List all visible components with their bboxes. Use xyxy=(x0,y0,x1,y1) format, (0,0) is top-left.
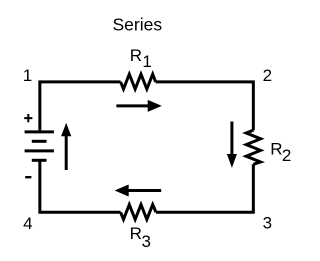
wire: R1 to top-right corner down to R2 (node 2) xyxy=(156,82,254,130)
wire: R2 to bottom-right corner to R3 (node 3) xyxy=(156,164,253,212)
current arrow left (bottom side) xyxy=(115,185,162,197)
svg-text:1: 1 xyxy=(142,52,151,71)
svg-text:1: 1 xyxy=(23,66,32,85)
current arrow right (top side) xyxy=(116,100,161,112)
battery B1: bottom short plate (-) xyxy=(32,159,47,162)
svg-text:2: 2 xyxy=(282,146,291,165)
svg-text:R: R xyxy=(270,140,282,159)
resistor R1 zigzag xyxy=(121,74,156,89)
battery B1: top long plate (+) xyxy=(25,130,54,133)
current arrow up (left side) xyxy=(61,123,71,170)
svg-text:R: R xyxy=(130,224,142,243)
resistor R2 zigzag (vertical) xyxy=(246,130,260,164)
battery plus sign xyxy=(24,114,32,122)
wire: R3 to bottom-left corner up to battery minus (node 4) xyxy=(40,160,121,212)
current arrow down (right side) xyxy=(227,122,237,168)
battery B1: upper short plate xyxy=(32,140,47,143)
wire: top-left corner to R1 (node 1 to R1) xyxy=(40,82,121,130)
svg-text:2: 2 xyxy=(263,66,272,85)
battery minus sign xyxy=(25,176,31,178)
svg-text:3: 3 xyxy=(263,214,272,233)
svg-text:Series: Series xyxy=(112,15,162,35)
svg-text:3: 3 xyxy=(142,232,151,251)
svg-text:R: R xyxy=(130,46,142,65)
svg-text:4: 4 xyxy=(23,214,32,233)
battery B1: lower long plate xyxy=(25,149,54,152)
resistor R3 zigzag xyxy=(121,205,156,220)
